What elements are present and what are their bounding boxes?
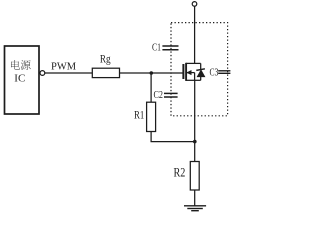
- body lead vertical to source: [194, 73, 196, 81]
- wire source down to R2: [194, 80, 196, 161]
- PWM output terminal circle: [40, 71, 45, 76]
- body arrow: [187, 71, 191, 75]
- svg-text:R1: R1: [134, 109, 144, 121]
- MOSFET package dashed box: [171, 23, 228, 116]
- gate bar: [182, 64, 184, 79]
- resistor R2: [190, 162, 199, 191]
- ground: [184, 206, 206, 211]
- svg-text:IC: IC: [14, 73, 25, 85]
- wire R2 to ground: [194, 190, 196, 206]
- resistor Rg: [92, 68, 119, 77]
- source lead: [186, 79, 201, 81]
- wire junction down to R1: [150, 73, 152, 102]
- MOSFET Q1: [183, 63, 205, 81]
- svg-text:C1: C1: [152, 42, 161, 54]
- capacitor C3 (Cds) plates: [218, 71, 230, 74]
- svg-text:C2: C2: [154, 89, 164, 101]
- wire drain from terminal to MOSFET: [194, 6, 196, 63]
- svg-text:PWM: PWM: [51, 62, 77, 73]
- drain lead: [186, 62, 201, 64]
- capacitor C2 (Cgs) plates: [164, 93, 178, 97]
- wire PWM (IC to Rg): [45, 72, 93, 74]
- body diode D1 triangle: [197, 70, 205, 77]
- svg-text:R2: R2: [174, 165, 186, 180]
- body diode branch wire lower: [200, 77, 202, 81]
- channel bar: [185, 63, 187, 81]
- capacitor C1 (Cgd) plates: [162, 46, 178, 50]
- resistor R1: [147, 102, 156, 131]
- label 电源 (drawn as paths): [11, 60, 31, 70]
- svg-text:Rg: Rg: [100, 53, 111, 65]
- node junction gate / R1 branch: [150, 71, 154, 75]
- node junction R1 / R2 / source: [193, 140, 197, 144]
- power IC box U1: [5, 46, 40, 114]
- svg-text:C3: C3: [210, 66, 219, 78]
- body diode branch wire upper: [200, 63, 202, 69]
- drain supply terminal circle: [192, 2, 197, 7]
- body diode cathode bar: [196, 69, 205, 71]
- wire Rg to MOSFET gate: [120, 72, 183, 74]
- wire R1 bottom to junction node: [151, 132, 195, 142]
- body lead wire: [187, 72, 195, 74]
